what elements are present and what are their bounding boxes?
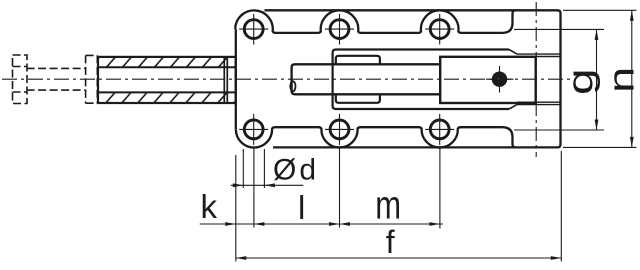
hex collar (hidden, dashed) bbox=[86, 55, 98, 103]
arrow l right bbox=[329, 222, 340, 226]
hole top-1 bbox=[244, 20, 263, 39]
extension line hole2 center bbox=[339, 147, 341, 228]
svg-text:f: f bbox=[386, 224, 395, 260]
dimension line Ød bbox=[231, 184, 304, 186]
extension line hole3 center bbox=[439, 147, 441, 229]
hole bottom-1 crosshair bbox=[239, 114, 268, 145]
arrow l left bbox=[254, 222, 265, 226]
arrow f left bbox=[236, 256, 247, 260]
svg-text:m: m bbox=[375, 183, 401, 228]
hole bottom-3 crosshair bbox=[425, 114, 454, 145]
back block outline bbox=[265, 10, 561, 147]
n extension bottom bbox=[563, 146, 637, 148]
hole top-3 bbox=[430, 20, 449, 39]
arrow m right bbox=[429, 222, 440, 226]
arrow m left bbox=[340, 222, 351, 226]
flange left edge bbox=[235, 29, 237, 129]
flange bottom profile: lobes and valleys bbox=[236, 127, 516, 147]
hole top-2 bbox=[330, 20, 349, 39]
hatching top band bbox=[88, 53, 247, 70]
extension line flange left (f/k) bbox=[235, 155, 237, 262]
gland body (hatched block) bbox=[98, 57, 236, 103]
dimension line g bbox=[596, 29, 598, 130]
hole bottom-2 bbox=[330, 120, 349, 139]
rod end hole bbox=[290, 81, 295, 91]
cover joint lines top bbox=[517, 54, 560, 56]
cover joint lines bottom bbox=[517, 102, 560, 104]
extension line body right (f) bbox=[560, 151, 562, 262]
svg-text:g: g bbox=[560, 68, 600, 95]
hatching bottom band bbox=[88, 88, 247, 105]
hole bottom-1 bbox=[244, 120, 263, 139]
dimension chain line k l m bbox=[200, 223, 443, 225]
vertical centerline bbox=[535, 2, 537, 157]
piston rod bbox=[292, 64, 440, 94]
arrow f right bbox=[551, 256, 562, 260]
hole top-1 crosshair bbox=[239, 14, 268, 45]
slot chamfer bottom bbox=[509, 105, 517, 109]
svg-text:Ød: Ød bbox=[273, 154, 319, 187]
arrow k left (outside) bbox=[225, 222, 236, 226]
hole top-2 crosshair bbox=[325, 14, 354, 45]
flange top profile: lobes and valleys bbox=[235, 10, 515, 33]
pin (filled) bbox=[492, 72, 507, 87]
hole top-3 crosshair bbox=[425, 14, 454, 45]
dimension line f bbox=[236, 257, 562, 259]
gland bore lines bbox=[98, 67, 236, 92]
slot chamfer top bbox=[509, 50, 517, 55]
step line bottom (g extension) bbox=[514, 129, 604, 131]
arrow n bottom bbox=[630, 137, 634, 148]
arrow Ød left bbox=[233, 183, 244, 187]
hole bottom-3 bbox=[430, 120, 449, 139]
extension line hole1 left edge bbox=[242, 149, 244, 188]
dimension line n bbox=[631, 10, 633, 147]
arrow g bottom bbox=[595, 120, 599, 131]
svg-text:n: n bbox=[601, 67, 640, 93]
threaded shaft (hidden, dashed) bbox=[27, 68, 86, 90]
pin crosshair bbox=[486, 66, 514, 93]
slot outline bbox=[333, 50, 509, 110]
horizontal centerline bbox=[2, 78, 572, 80]
extension line hole1 center bbox=[253, 147, 255, 228]
arrow g top bbox=[595, 29, 599, 40]
collar bottom band bbox=[336, 94, 380, 103]
gland grooves bbox=[224, 57, 227, 103]
step line top (g extension) bbox=[514, 28, 604, 30]
extension line hole1 right edge bbox=[263, 149, 265, 188]
n extension top bbox=[563, 9, 637, 11]
collar top band bbox=[336, 56, 380, 65]
arrow n top bbox=[630, 10, 634, 20]
svg-text:l: l bbox=[298, 189, 305, 226]
piston block bbox=[440, 57, 536, 103]
svg-text:k: k bbox=[201, 188, 218, 225]
arrow Ød right bbox=[264, 183, 275, 187]
hex nut (hidden, dashed) bbox=[13, 55, 28, 104]
hole bottom-2 crosshair bbox=[325, 114, 354, 145]
